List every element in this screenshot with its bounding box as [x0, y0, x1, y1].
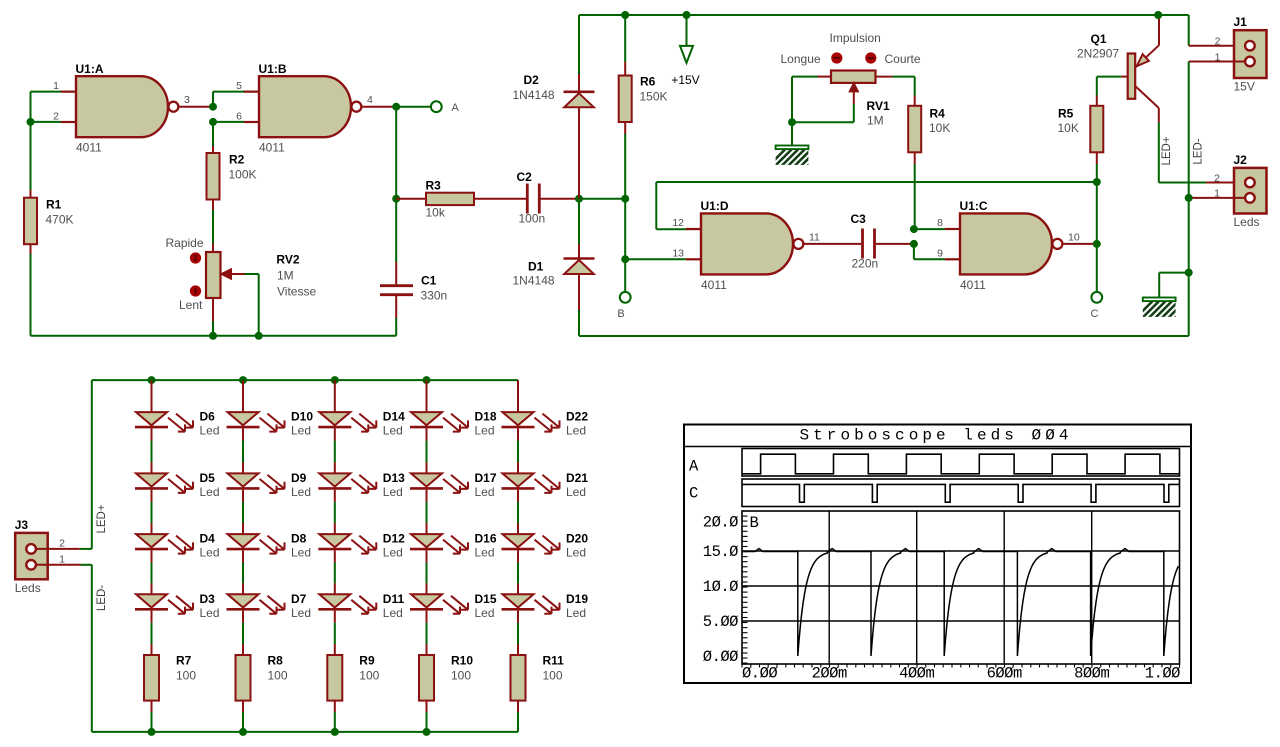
svg-text:Led: Led: [291, 606, 311, 620]
svg-text:D2: D2: [524, 73, 540, 87]
node J2 pin1 junction: [1185, 194, 1193, 202]
scope outer frame: [684, 425, 1191, 684]
svg-text:D16: D16: [475, 532, 497, 546]
scope x label 0.00: [742, 665, 777, 683]
svg-text:D14: D14: [383, 410, 405, 424]
node pin13 junction: [621, 255, 629, 263]
label LED- matrix: [96, 585, 108, 611]
wire 0V bottom rail left segment: [31, 335, 397, 337]
node matrix top rail junction: [423, 376, 431, 384]
wire column D11: [334, 550, 336, 594]
svg-text:100: 100: [451, 669, 471, 683]
wire R7 top: [151, 611, 153, 655]
svg-text:D15: D15: [475, 592, 497, 606]
wire R5 line to terminal C: [1096, 182, 1098, 292]
svg-text:Vitesse: Vitesse: [277, 285, 316, 299]
svg-text:Led: Led: [291, 485, 311, 499]
wire column D20: [517, 490, 519, 534]
LED D5: [135, 471, 220, 499]
wire junction to D1: [578, 199, 580, 259]
node pin8 junction: [910, 225, 918, 233]
wire R4 pins: [914, 96, 916, 165]
svg-text:C: C: [689, 485, 698, 503]
svg-text:150K: 150K: [640, 90, 668, 104]
svg-text:Leds: Leds: [15, 581, 41, 595]
svg-text:12: 12: [672, 217, 684, 229]
node top rail +15V: [683, 11, 691, 19]
wire column D13: [334, 428, 336, 473]
svg-text:R7: R7: [176, 654, 192, 668]
transistor Q1: [1077, 15, 1159, 108]
svg-text:D13: D13: [383, 471, 405, 485]
svg-text:2ØØm: 2ØØm: [812, 665, 847, 683]
waveform A trace: [742, 454, 1180, 474]
svg-text:R2: R2: [229, 153, 245, 167]
svg-text:U1:A: U1:A: [76, 62, 104, 76]
label J1 pin2: [1215, 36, 1221, 48]
node top rail R6: [621, 11, 629, 19]
node matrix top rail junction: [148, 376, 156, 384]
svg-text:6: 6: [236, 110, 242, 122]
svg-text:D22: D22: [566, 410, 588, 424]
op-amp U1:D: [672, 199, 820, 292]
op-amp U1:C: [937, 199, 1080, 292]
svg-text:Led: Led: [200, 606, 220, 620]
svg-text:2: 2: [53, 110, 59, 122]
wire to terminal A: [396, 106, 431, 108]
label J2 pin1: [1214, 188, 1220, 200]
wire column D3: [151, 550, 153, 594]
wire column D7: [242, 550, 244, 594]
svg-text:6ØØm: 6ØØm: [987, 665, 1022, 683]
scope x label 1.00: [1145, 665, 1180, 683]
svg-text:Courte: Courte: [885, 52, 921, 66]
node R5/feedback junction: [1093, 178, 1101, 186]
svg-text:Led: Led: [383, 606, 403, 620]
wire 0V bottom rail right segment: [579, 335, 1189, 337]
wire R8 bottom: [242, 701, 244, 732]
node D1/D2 junction: [575, 195, 583, 203]
wire ground stub J2: [1159, 273, 1189, 298]
terminal C: [1091, 292, 1103, 320]
resistor R6: [619, 75, 668, 123]
svg-text:8: 8: [937, 217, 943, 229]
svg-text:B: B: [617, 308, 624, 320]
svg-text:C1: C1: [421, 274, 437, 288]
wire RV1 left to ground node: [792, 77, 831, 123]
svg-text:D19: D19: [566, 592, 588, 606]
wire column D18: [426, 380, 428, 412]
svg-text:Lent: Lent: [179, 298, 203, 312]
svg-text:Led: Led: [566, 424, 586, 438]
diode D1: [513, 259, 595, 288]
LED D18: [410, 410, 497, 438]
node pin3/pin5 junction: [209, 103, 217, 111]
resistor R7: [144, 654, 196, 701]
wire column D12: [334, 490, 336, 534]
wire J2 pin1: [1189, 197, 1246, 199]
node R3/C1 junction: [392, 195, 400, 203]
node matrix bottom rail junction: [331, 728, 339, 736]
svg-text:C: C: [1091, 308, 1099, 320]
node pin6/R2 junction: [209, 118, 217, 126]
LED D21: [502, 471, 589, 499]
svg-text:13: 13: [672, 248, 684, 260]
scope box B: [742, 511, 1180, 664]
svg-text:A: A: [452, 102, 460, 114]
svg-text:Led: Led: [200, 485, 220, 499]
svg-text:LED+: LED+: [1161, 136, 1173, 165]
svg-text:Led: Led: [566, 485, 586, 499]
wire column D8: [242, 490, 244, 534]
svg-text:LED+: LED+: [96, 504, 108, 533]
node pin10 junction: [1093, 240, 1101, 248]
wire D2 to junction: [578, 108, 580, 199]
node matrix bottom rail junction: [423, 728, 431, 736]
svg-text:R9: R9: [359, 654, 375, 668]
connector J3: [15, 518, 48, 595]
resistor R5: [1058, 106, 1104, 153]
label LED+ top: [1161, 136, 1173, 165]
node ground stub junction: [1185, 269, 1193, 277]
wire +15V top rail: [579, 14, 1189, 16]
node matrix bottom rail junction: [239, 728, 247, 736]
svg-text:2: 2: [1214, 172, 1220, 184]
wire R7 bottom: [151, 701, 153, 732]
svg-text:220n: 220n: [852, 257, 879, 271]
wire R9 top: [334, 611, 336, 655]
svg-text:470K: 470K: [46, 213, 74, 227]
op-amp U1:A: [53, 62, 190, 155]
svg-text:1M: 1M: [867, 114, 884, 128]
svg-text:Led: Led: [383, 424, 403, 438]
ground near RV1: [769, 146, 825, 167]
wire pin6 U1:B: [213, 121, 259, 123]
wire RV1 right to R4: [876, 77, 915, 96]
ground near J2: [1136, 298, 1192, 319]
LED D10: [227, 410, 314, 438]
svg-text:R5: R5: [1058, 107, 1074, 121]
svg-text:D18: D18: [475, 410, 497, 424]
potentiometer RV1: [831, 71, 890, 128]
resistor R1: [24, 198, 74, 245]
label J1 pin1: [1215, 51, 1221, 63]
svg-text:Led: Led: [200, 546, 220, 560]
svg-text:Impulsion: Impulsion: [830, 31, 881, 45]
scope title: [799, 427, 1072, 445]
wire pin8: [914, 228, 960, 230]
wire column D4: [151, 490, 153, 534]
svg-text:100K: 100K: [229, 168, 257, 182]
LED D15: [410, 592, 497, 620]
label J2 pin2: [1214, 172, 1220, 184]
wire pin2 U1:A: [31, 121, 77, 123]
svg-text:5: 5: [236, 80, 242, 92]
scope y label 20.0: [703, 513, 738, 531]
wire RV2 wiper: [245, 274, 259, 336]
wire column D21: [517, 428, 519, 473]
svg-text:D1: D1: [528, 260, 544, 274]
resistor R10: [419, 654, 473, 701]
capacitor C2: [517, 170, 546, 226]
svg-text:D17: D17: [475, 471, 497, 485]
wire R11 bottom: [517, 701, 519, 732]
svg-text:Led: Led: [383, 546, 403, 560]
label J3 pin2: [59, 537, 65, 549]
wire R3 left pin: [396, 198, 426, 200]
svg-text:1: 1: [53, 80, 59, 92]
svg-text:D8: D8: [291, 532, 307, 546]
svg-text:R6: R6: [640, 75, 656, 89]
svg-text:J1: J1: [1234, 15, 1248, 29]
svg-text:Ø.ØØ: Ø.ØØ: [703, 648, 738, 666]
svg-text:10K: 10K: [1058, 121, 1079, 135]
svg-text:330n: 330n: [421, 289, 448, 303]
wire C3 to pin9 node: [876, 243, 914, 245]
wire A junction down to R3 node: [395, 107, 397, 199]
wire column D14: [334, 380, 336, 412]
wire matrix bottom rail: [92, 565, 518, 732]
svg-text:R11: R11: [543, 654, 565, 668]
wire pin4 U1:B output: [361, 106, 397, 108]
resistor R4: [908, 106, 950, 153]
svg-text:4011: 4011: [960, 278, 986, 292]
scope axis ticks: [742, 511, 1180, 668]
wire R9 bottom: [334, 701, 336, 732]
power +15V arrow: [671, 15, 699, 87]
node R6/B junction: [621, 195, 629, 203]
svg-text:Led: Led: [383, 485, 403, 499]
svg-text:100: 100: [543, 669, 563, 683]
node R1/pin2 junction: [27, 118, 35, 126]
op-amp U1:B: [236, 62, 373, 155]
RV2 marker Lent: [179, 285, 203, 312]
svg-text:9: 9: [937, 248, 943, 260]
LED D4: [135, 532, 220, 560]
svg-text:Rapide: Rapide: [166, 236, 204, 250]
resistor R8: [236, 654, 288, 701]
svg-text:Leds: Leds: [1234, 215, 1260, 229]
wire column D6: [151, 380, 153, 412]
wire column D15: [426, 550, 428, 594]
scope label C: [689, 485, 698, 503]
svg-text:2: 2: [59, 537, 65, 549]
svg-text:Led: Led: [475, 485, 495, 499]
wire C2 to D junction: [541, 198, 580, 200]
LED D13: [318, 471, 405, 499]
svg-text:J2: J2: [1234, 153, 1248, 167]
node matrix top rail junction: [239, 376, 247, 384]
wire top rail to D2: [578, 15, 580, 91]
resistor R2: [207, 153, 257, 200]
svg-text:B: B: [750, 514, 759, 532]
wire C1 bottom to rail: [395, 296, 397, 336]
svg-text:D7: D7: [291, 592, 307, 606]
wire R1 pins: [30, 190, 32, 254]
svg-text:R1: R1: [46, 198, 62, 212]
wire R5 top to Q1 base: [1097, 77, 1128, 106]
waveform B trace: [742, 549, 1178, 657]
svg-text:4: 4: [367, 94, 373, 106]
wire R10 bottom: [426, 701, 428, 732]
node pin4/A junction: [392, 103, 400, 111]
LED D20: [502, 532, 589, 560]
svg-text:1.ØØ: 1.ØØ: [1145, 665, 1180, 683]
wire RV2 bottom: [212, 298, 214, 336]
wire pin5 U1:B: [213, 92, 259, 107]
wire column D5: [151, 428, 153, 473]
wire R4 down to pin8 node: [914, 164, 916, 229]
svg-text:D5: D5: [200, 471, 216, 485]
svg-text:RV1: RV1: [867, 99, 890, 113]
svg-text:D21: D21: [566, 471, 588, 485]
scope box C: [742, 479, 1180, 507]
scope y label 5.00: [703, 613, 738, 631]
svg-text:100: 100: [359, 669, 379, 683]
node RV1 ground junction: [788, 118, 796, 126]
svg-text:Led: Led: [566, 606, 586, 620]
scope y label 15.0: [703, 543, 738, 561]
wire R10 top: [426, 611, 428, 655]
svg-text:A: A: [689, 458, 699, 476]
wire column D19: [517, 550, 519, 594]
wire LED+ to J2 pin2: [1159, 182, 1245, 184]
svg-text:Led: Led: [475, 546, 495, 560]
wire pin9: [914, 244, 960, 259]
LED D8: [227, 532, 312, 560]
wire pin1 U1:A: [31, 91, 77, 93]
svg-text:Led: Led: [566, 546, 586, 560]
LED D17: [410, 471, 497, 499]
wire left vertical R1 top: [30, 92, 32, 190]
wire R5 bottom: [1096, 152, 1098, 182]
svg-text:Led: Led: [475, 606, 495, 620]
svg-text:1: 1: [59, 553, 65, 565]
LED D7: [227, 592, 312, 620]
connector J2: [1234, 153, 1267, 229]
svg-text:R4: R4: [930, 107, 946, 121]
svg-text:U1:D: U1:D: [701, 199, 729, 213]
svg-text:11: 11: [809, 231, 820, 243]
node matrix bottom rail junction: [148, 728, 156, 736]
svg-text:RV2: RV2: [276, 253, 299, 267]
label LED+ matrix: [96, 504, 108, 533]
svg-text:R3: R3: [426, 179, 442, 193]
LED D19: [502, 592, 589, 620]
svg-text:4011: 4011: [76, 141, 102, 155]
wire J3 pin1: [36, 564, 92, 566]
svg-text:15.Ø: 15.Ø: [703, 543, 738, 561]
scope x label 200m: [812, 665, 847, 683]
svg-text:U1:C: U1:C: [960, 199, 988, 213]
wire column D17: [426, 428, 428, 473]
svg-text:Led: Led: [475, 424, 495, 438]
wire pin10 to R5 line: [1062, 243, 1097, 245]
resistor R9: [327, 654, 379, 701]
node top rail Q1 emitter: [1154, 11, 1162, 19]
svg-text:C3: C3: [851, 212, 867, 226]
wire column D9: [242, 428, 244, 473]
node matrix top rail junction: [331, 376, 339, 384]
wire Q1 collector LED+: [1158, 108, 1160, 183]
wire pin13 from B junction: [625, 258, 701, 260]
LED D6: [135, 410, 220, 438]
svg-text:J3: J3: [15, 518, 29, 532]
connector J1: [1234, 15, 1267, 93]
label LED- top: [1193, 138, 1205, 164]
svg-text:Q1: Q1: [1091, 32, 1107, 46]
svg-text:LED-: LED-: [96, 585, 108, 611]
svg-text:D11: D11: [383, 592, 405, 606]
LED D11: [318, 592, 404, 620]
wire pin11 to C3: [802, 243, 861, 245]
wire top rail to J1 pin2: [1189, 15, 1246, 46]
wire R6 to junction: [624, 122, 626, 199]
scope box A: [742, 449, 1180, 477]
svg-text:4011: 4011: [701, 278, 727, 292]
diode D2: [513, 73, 595, 107]
LED D16: [410, 532, 497, 560]
svg-text:1Ø.Ø: 1Ø.Ø: [703, 578, 738, 596]
wire D junction to B junction: [579, 198, 625, 200]
wire J1 pin1 LED- down: [1189, 62, 1246, 337]
wire pin4 node down to C1: [395, 199, 397, 285]
svg-text:Longue: Longue: [781, 52, 821, 66]
wire pin3 U1:A output: [178, 106, 213, 108]
wire D1 to rail: [578, 274, 580, 336]
svg-text:Led: Led: [200, 424, 220, 438]
wire B junction down: [624, 199, 626, 260]
svg-text:10: 10: [1068, 231, 1080, 243]
wire column D22: [517, 380, 519, 412]
svg-text:D10: D10: [291, 410, 313, 424]
scope y label 10.0: [703, 578, 738, 596]
wire J3 pin2: [36, 548, 92, 550]
wire pin12 feedback: [656, 182, 1097, 229]
label Impulsion: [830, 31, 881, 45]
capacitor C3: [851, 212, 879, 271]
svg-text:4ØØm: 4ØØm: [899, 665, 934, 683]
svg-text:Led: Led: [291, 546, 311, 560]
wire R11 top: [517, 611, 519, 655]
LED D3: [135, 592, 220, 620]
svg-text:10K: 10K: [929, 121, 950, 135]
capacitor C1: [380, 274, 447, 303]
svg-text:LED-: LED-: [1193, 138, 1205, 164]
wire R3 to C2: [474, 198, 526, 200]
LED D12: [318, 532, 405, 560]
svg-text:U1:B: U1:B: [259, 62, 287, 76]
svg-text:1M: 1M: [277, 269, 294, 283]
wire matrix top rail: [92, 380, 518, 549]
resistor R3: [426, 179, 475, 220]
RV1 marker Courte: [865, 52, 921, 66]
scope x label 800m: [1074, 665, 1109, 683]
svg-text:100: 100: [268, 669, 288, 683]
RV2 marker Rapide: [166, 236, 204, 264]
svg-text:2Ø.Ø: 2Ø.Ø: [703, 513, 738, 531]
svg-text:D3: D3: [200, 592, 216, 606]
wire column D16: [426, 490, 428, 534]
svg-text:3: 3: [184, 94, 190, 106]
svg-text:1N4148: 1N4148: [513, 88, 555, 102]
node RV2 wiper rail: [255, 332, 263, 340]
LED D14: [318, 410, 405, 438]
potentiometer RV2: [206, 252, 316, 299]
svg-text:10k: 10k: [426, 206, 446, 220]
node RV2 bottom rail: [209, 332, 217, 340]
svg-text:8ØØm: 8ØØm: [1074, 665, 1109, 683]
